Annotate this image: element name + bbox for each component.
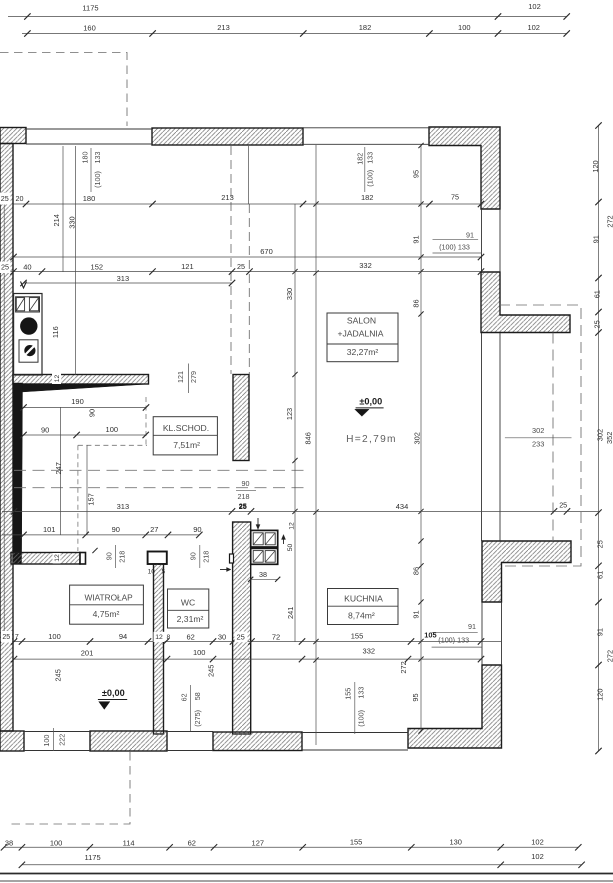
svg-text:62: 62	[188, 838, 196, 847]
svg-text:62: 62	[179, 693, 188, 701]
svg-text:180: 180	[83, 194, 96, 203]
left wall labels 25/7 row	[1, 631, 12, 643]
wall center 2 notch	[230, 554, 234, 563]
wall bottom left corner	[0, 731, 24, 751]
dashed roof overhang top-left	[0, 53, 127, 127]
svg-text:846: 846	[303, 432, 312, 444]
svg-text:182: 182	[355, 153, 364, 165]
door dim tick	[92, 548, 97, 553]
room label SALON+JADALNIA	[327, 313, 398, 362]
svg-text:+JADALNIA: +JADALNIA	[337, 329, 383, 339]
dashed floor edge above (x=249.3)	[248, 204, 250, 374]
svg-text:133: 133	[93, 152, 102, 164]
svg-text:332: 332	[363, 647, 376, 656]
wall right upper L (salon/terrace)	[481, 272, 570, 333]
svg-text:90: 90	[193, 525, 201, 534]
dashed floor edge above (x=234)	[230, 146, 232, 374]
dim row y=257 (670)	[14, 256, 482, 258]
wall stair right (hatched)	[233, 375, 249, 461]
svg-text:(100): (100)	[365, 170, 374, 187]
svg-text:91: 91	[595, 628, 604, 636]
arrow right wc	[220, 569, 228, 571]
wall stair side black (left)	[13, 383, 23, 564]
svg-text:25: 25	[1, 263, 9, 272]
sheet border lines bottom	[0, 873, 613, 875]
dashed line inside terrace	[552, 333, 554, 542]
svg-text:2,31m²: 2,31m²	[177, 614, 204, 624]
svg-text:±0,00: ±0,00	[359, 396, 382, 406]
wall center 1 stem (wiatrolap/wc)	[154, 564, 164, 734]
dim vertical x=248.5	[248, 146, 250, 204]
chimney shaft box 1	[251, 530, 278, 547]
svg-text:241: 241	[286, 607, 295, 619]
svg-text:114: 114	[123, 838, 135, 847]
svg-text:102: 102	[527, 23, 540, 32]
svg-text:91: 91	[412, 610, 421, 618]
svg-text:302: 302	[413, 432, 422, 444]
svg-text:5: 5	[161, 568, 165, 575]
svg-text:4,75m²: 4,75m²	[93, 609, 120, 619]
svg-text:127: 127	[252, 838, 265, 847]
svg-text:102: 102	[531, 852, 544, 861]
dim 38 shaft	[251, 578, 278, 580]
window face lines right wall	[481, 209, 483, 272]
svg-text:247: 247	[54, 462, 63, 474]
svg-text:330: 330	[285, 288, 294, 300]
room label WIATROLAP	[70, 585, 144, 624]
svg-text:155: 155	[350, 838, 363, 847]
svg-text:90: 90	[105, 552, 114, 560]
wall left exterior	[0, 144, 13, 732]
svg-text:272: 272	[399, 661, 408, 673]
dashed terrace outline right	[499, 305, 581, 566]
svg-text:91: 91	[466, 230, 474, 239]
svg-text:95: 95	[411, 693, 420, 701]
dim row y=659.1 (201 100 332)	[14, 658, 481, 660]
svg-text:WC: WC	[181, 598, 195, 608]
svg-text:12: 12	[54, 375, 61, 383]
svg-text:(275): (275)	[193, 710, 202, 727]
chimney shaft box 2	[251, 548, 278, 564]
svg-text:10: 10	[148, 568, 156, 575]
svg-text:8,74m²: 8,74m²	[348, 611, 375, 621]
room label KL.SCHOD.	[153, 417, 217, 455]
arrow marks at x=23.5	[21, 282, 27, 289]
dashed ceiling lines hall	[14, 469, 307, 471]
dim vertical x=75.5	[75, 146, 77, 375]
svg-text:25: 25	[2, 634, 10, 641]
svg-text:86: 86	[412, 299, 421, 307]
svg-text:214: 214	[52, 214, 61, 226]
left wall labels 25/20	[0, 193, 11, 205]
svg-text:100: 100	[193, 648, 206, 657]
svg-text:213: 213	[221, 193, 234, 202]
svg-text:38: 38	[5, 838, 13, 847]
dim row y=641.5 (25 7 100 94 12 8 62 30 25 72 155 105)	[2, 641, 502, 643]
svg-text:120: 120	[595, 689, 604, 701]
svg-text:130: 130	[449, 838, 462, 847]
svg-text:100: 100	[42, 735, 51, 747]
svg-text:155: 155	[351, 632, 364, 641]
svg-text:91: 91	[591, 235, 600, 243]
svg-text:152: 152	[91, 263, 104, 272]
svg-text:116: 116	[51, 326, 60, 338]
wall top middle	[152, 128, 303, 145]
room label KUCHNIA	[328, 589, 399, 625]
svg-text:218: 218	[202, 551, 211, 563]
svg-text:302: 302	[595, 429, 604, 441]
kitchen sink 2 box with circle	[19, 340, 38, 362]
svg-text:102: 102	[528, 2, 541, 11]
svg-text:91: 91	[468, 622, 476, 631]
svg-text:8: 8	[167, 634, 171, 641]
dashed stair outline	[145, 397, 147, 445]
dim vertical x=60.5	[60, 407, 62, 535]
svg-text:1175: 1175	[85, 853, 101, 862]
svg-text:123: 123	[285, 408, 294, 420]
svg-text:H=2,79m: H=2,79m	[346, 434, 397, 445]
svg-text:KL.SCHOD.: KL.SCHOD.	[163, 423, 209, 433]
svg-text:434: 434	[396, 502, 409, 511]
wall stub left (entrance)	[11, 553, 80, 565]
svg-text:90: 90	[242, 479, 250, 488]
svg-text:102: 102	[531, 838, 544, 847]
svg-text:91: 91	[412, 235, 421, 243]
wall right lower L	[408, 665, 502, 748]
svg-text:201: 201	[81, 648, 94, 657]
svg-text:25: 25	[239, 502, 247, 511]
svg-text:WIATROŁAP: WIATROŁAP	[84, 592, 133, 602]
kitchen stove circle	[20, 317, 37, 334]
svg-text:121: 121	[176, 371, 185, 383]
window face lines bottom wall	[24, 731, 90, 733]
wall center 1 cap	[148, 552, 167, 565]
svg-text:62: 62	[187, 632, 195, 641]
dim vertical right chain x=598.5	[598, 125, 600, 751]
svg-text:(100) 133: (100) 133	[438, 636, 469, 645]
left wall labels 25/40 row	[0, 262, 11, 274]
svg-text:72: 72	[272, 632, 280, 641]
svg-text:25: 25	[592, 320, 601, 328]
svg-text:279: 279	[189, 371, 198, 383]
svg-text:121: 121	[181, 262, 194, 271]
dim vertical x=316 (846 chain)	[315, 145, 317, 745]
svg-text:(100): (100)	[357, 710, 366, 727]
svg-text:38: 38	[259, 570, 267, 579]
svg-text:101: 101	[43, 525, 56, 534]
svg-text:100: 100	[106, 425, 119, 434]
window face lines top wall	[26, 128, 152, 130]
wall top-right L	[429, 127, 500, 209]
svg-text:12: 12	[288, 522, 295, 530]
svg-text:1175: 1175	[82, 4, 98, 13]
svg-text:(100) 133: (100) 133	[439, 242, 470, 251]
svg-text:20: 20	[16, 194, 24, 203]
svg-text:86: 86	[412, 567, 421, 575]
svg-text:233: 233	[532, 440, 544, 449]
svg-text:160: 160	[83, 24, 96, 33]
dim row y=271.6 (25 40 152 121 25 332)	[2, 271, 481, 273]
dim row y=435 (90 100)	[24, 434, 147, 436]
svg-text:30: 30	[218, 632, 226, 641]
svg-text:157: 157	[87, 493, 96, 505]
dim vertical left edge x=4.2	[3, 192, 5, 642]
svg-text:100: 100	[48, 632, 61, 641]
svg-text:75: 75	[451, 193, 459, 202]
svg-text:100: 100	[458, 23, 471, 32]
svg-text:272: 272	[605, 215, 613, 227]
svg-text:213: 213	[217, 23, 230, 32]
svg-text:222: 222	[58, 734, 67, 746]
svg-text:90: 90	[88, 409, 97, 417]
dim row bottom (38 100 114 62 127 155 130 102)	[4, 846, 578, 848]
svg-text:7,51m²: 7,51m²	[173, 440, 200, 450]
svg-text:12: 12	[155, 634, 163, 641]
svg-text:313: 313	[117, 502, 130, 511]
svg-text:245: 245	[207, 665, 216, 677]
svg-text:313: 313	[117, 274, 130, 283]
svg-text:90: 90	[41, 426, 49, 435]
svg-text:94: 94	[119, 632, 127, 641]
svg-text:218: 218	[118, 551, 127, 563]
dim row y=511.4 (313 434 25 25)	[2, 510, 599, 512]
svg-text:90: 90	[188, 552, 197, 560]
svg-text:±0,00: ±0,00	[102, 688, 125, 698]
wall wedge black below strip	[13, 384, 149, 393]
svg-text:58: 58	[193, 692, 202, 700]
dim row y=283 (313)	[24, 282, 233, 284]
wall top-left corner block	[0, 128, 26, 144]
svg-text:182: 182	[361, 193, 374, 202]
svg-text:61: 61	[595, 571, 604, 579]
svg-text:27: 27	[150, 525, 158, 534]
wall bottom (wiatrolap)	[90, 731, 167, 751]
dim row 2 top (160 213 182 100 102)	[22, 33, 567, 35]
svg-text:182: 182	[359, 23, 372, 32]
dim vertical x=63	[62, 146, 64, 272]
dim vertical x=87	[86, 445, 88, 535]
svg-text:25: 25	[237, 632, 245, 641]
room label WC	[168, 589, 209, 628]
svg-text:(100): (100)	[93, 171, 102, 188]
svg-text:120: 120	[591, 160, 600, 172]
dim row bottom 2 (1175 / 102)	[22, 864, 582, 866]
svg-text:180: 180	[81, 152, 90, 164]
svg-text:155: 155	[344, 688, 353, 700]
svg-text:7: 7	[15, 634, 19, 641]
wall kitchen strip (horizontal)	[13, 375, 149, 385]
svg-text:133: 133	[357, 687, 366, 699]
dim row y=534.9 (101 90 27 90)	[2, 534, 199, 536]
svg-text:190: 190	[71, 397, 84, 406]
svg-text:12: 12	[54, 554, 61, 562]
svg-text:KUCHNIA: KUCHNIA	[344, 593, 383, 603]
kitchen sink unit boxes	[16, 297, 40, 312]
svg-text:25: 25	[559, 501, 567, 510]
wall right middle L (kuchnia/terrace)	[482, 541, 571, 602]
arrow up shaft	[283, 538, 285, 544]
svg-text:61: 61	[592, 290, 601, 298]
arrow down shaft	[257, 518, 259, 526]
svg-text:25: 25	[1, 194, 9, 203]
svg-text:670: 670	[260, 247, 273, 256]
dim row 1 top (1175 / 102)	[8, 16, 567, 18]
svg-text:330: 330	[67, 216, 76, 228]
svg-text:272: 272	[606, 650, 613, 662]
svg-text:40: 40	[23, 263, 31, 272]
wall stub end cap	[80, 553, 86, 565]
svg-text:218: 218	[238, 492, 250, 501]
wall bottom (wc/kuchnia)	[213, 732, 302, 751]
dim vertical x=421 salon chain	[420, 145, 422, 731]
svg-text:SALON: SALON	[347, 316, 376, 326]
dashed entrance outline bottom-left	[8, 752, 130, 824]
svg-text:25: 25	[595, 540, 604, 548]
svg-text:95: 95	[412, 170, 421, 178]
svg-text:302: 302	[532, 426, 544, 435]
dim row y=204 (180 213 182 75)	[14, 203, 482, 205]
svg-text:25: 25	[237, 262, 245, 271]
dim vertical x=295	[294, 204, 296, 642]
svg-text:32,27m²: 32,27m²	[347, 347, 379, 357]
rot label 12 kitchen strip	[52, 373, 61, 385]
svg-text:352: 352	[605, 432, 613, 444]
dim row y=407.5 (190)	[24, 407, 147, 409]
wall center 2 (wc/kuchnia)	[233, 522, 251, 734]
svg-text:332: 332	[359, 261, 372, 270]
kitchen counter outline	[14, 294, 42, 376]
rot label 12 stub	[53, 553, 61, 564]
svg-text:245: 245	[54, 669, 63, 681]
svg-text:90: 90	[112, 525, 120, 534]
svg-text:50: 50	[287, 544, 294, 552]
svg-text:133: 133	[365, 152, 374, 164]
svg-text:100: 100	[50, 838, 63, 847]
